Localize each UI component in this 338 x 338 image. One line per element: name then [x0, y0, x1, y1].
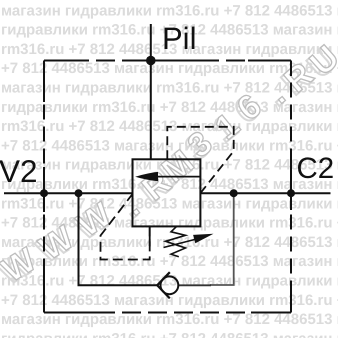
- svg-text:гидравлики rm316.ru +7 812 448: гидравлики rm316.ru +7 812 4486513 магаз…: [1, 330, 338, 338]
- check valve branch right riser (gray): [210, 193, 234, 285]
- junction dot Pil/envelope: [146, 56, 156, 66]
- pilot line right (dashed): [167, 127, 233, 193]
- svg-text:магазин гидравлики rm316.ru +7: магазин гидравлики rm316.ru +7 812 44865…: [1, 311, 338, 328]
- spring adjustment arrowhead: [193, 234, 213, 244]
- check valve ball: [161, 276, 179, 294]
- check valve line segment: [178, 284, 211, 286]
- envelope (dashed boundary box): [44, 61, 291, 313]
- valve flow arrowhead: [135, 172, 158, 181]
- wire C2 main line: [200, 192, 330, 194]
- envelope corner/crossing solid overlays: [44, 60, 85, 62]
- svg-text:rm316.ru +7 812 4486513 магази: rm316.ru +7 812 4486513 магазин гидравли…: [1, 273, 338, 290]
- wire V2 main line: [4, 192, 133, 194]
- valve flow path line: [140, 176, 200, 178]
- svg-text:магазин гидравлики rm316.ru +7: магазин гидравлики rm316.ru +7 812 44865…: [1, 2, 338, 19]
- check valve seat: [157, 272, 170, 298]
- junction dot C2/check branch: [230, 189, 238, 197]
- envelope bottom edge: [44, 312, 291, 314]
- svg-text:Pil: Pil: [162, 21, 196, 56]
- envelope left edge: [43, 61, 45, 313]
- pilot line left (dashed): [101, 194, 150, 260]
- junction dot C2/envelope: [287, 189, 295, 197]
- svg-text:C2: C2: [297, 152, 335, 185]
- spring adjustment arrow shaft: [164, 239, 199, 248]
- envelope top edge: [44, 60, 291, 62]
- junction dot V2/envelope: [40, 189, 48, 197]
- envelope right edge: [290, 61, 292, 313]
- check valve branch left riser: [79, 193, 158, 285]
- pilot line left solid stub at valve bottom: [149, 226, 151, 246]
- watermark diagonal www.rm316.ru: [0, 38, 338, 292]
- junction dot V2/check branch: [75, 189, 83, 197]
- svg-text:V2: V2: [0, 153, 38, 189]
- adjustable spring: [166, 226, 186, 256]
- main valve body square: [133, 159, 201, 226]
- wire Pil vertical line: [150, 24, 152, 159]
